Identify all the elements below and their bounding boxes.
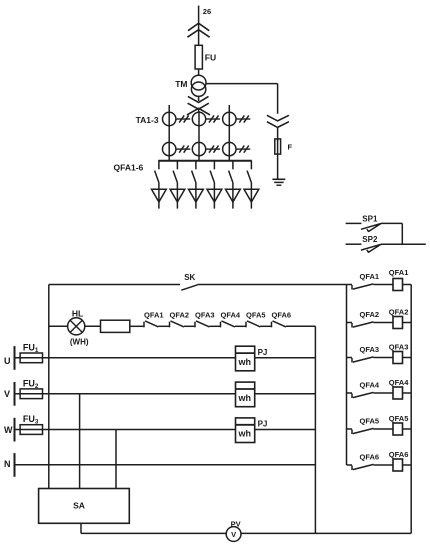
svg-text:QFA3: QFA3 bbox=[389, 343, 409, 352]
svg-text:QFA1: QFA1 bbox=[389, 268, 409, 277]
svg-text:FU2: FU2 bbox=[23, 378, 39, 390]
svg-text:N: N bbox=[4, 459, 11, 469]
svg-text:TA1-3: TA1-3 bbox=[136, 115, 159, 125]
svg-text:V: V bbox=[231, 530, 236, 539]
svg-text:wh: wh bbox=[238, 393, 252, 403]
svg-text:QFA4: QFA4 bbox=[360, 381, 380, 390]
svg-text:QFA4: QFA4 bbox=[221, 310, 241, 319]
svg-text:HL: HL bbox=[72, 309, 83, 319]
svg-text:SP1: SP1 bbox=[362, 214, 378, 223]
svg-text:QFA1: QFA1 bbox=[360, 272, 380, 281]
svg-text:FU1: FU1 bbox=[23, 343, 39, 355]
svg-text:QFA1: QFA1 bbox=[144, 310, 164, 319]
svg-text:QFA6: QFA6 bbox=[272, 310, 292, 319]
svg-text:PJ: PJ bbox=[258, 348, 268, 357]
svg-text:QFA3: QFA3 bbox=[195, 310, 215, 319]
svg-text:QFA5: QFA5 bbox=[360, 417, 380, 426]
svg-text:U: U bbox=[4, 356, 11, 366]
svg-text:QFA6: QFA6 bbox=[360, 453, 380, 462]
svg-text:wh: wh bbox=[238, 357, 252, 367]
svg-text:V: V bbox=[4, 389, 10, 399]
svg-text:TM: TM bbox=[175, 79, 187, 89]
svg-text:PV: PV bbox=[231, 520, 241, 529]
svg-text:W: W bbox=[4, 425, 13, 435]
svg-text:QFA3: QFA3 bbox=[360, 345, 380, 354]
svg-text:wh: wh bbox=[238, 429, 252, 439]
svg-text:QFA2: QFA2 bbox=[389, 308, 409, 317]
svg-text:QFA2: QFA2 bbox=[360, 310, 380, 319]
svg-text:QFA5: QFA5 bbox=[246, 310, 266, 319]
svg-text:(WH): (WH) bbox=[70, 338, 89, 347]
svg-text:SP2: SP2 bbox=[362, 235, 378, 244]
svg-text:26: 26 bbox=[203, 7, 211, 16]
svg-text:SK: SK bbox=[184, 273, 195, 282]
svg-text:FU3: FU3 bbox=[23, 414, 39, 426]
svg-text:FU: FU bbox=[205, 52, 216, 62]
svg-text:QFA6: QFA6 bbox=[389, 450, 409, 459]
svg-text:PJ: PJ bbox=[258, 420, 268, 429]
svg-text:QFA4: QFA4 bbox=[389, 378, 409, 387]
svg-text:QFA1-6: QFA1-6 bbox=[114, 163, 144, 173]
svg-text:QFA5: QFA5 bbox=[389, 414, 409, 423]
svg-text:F: F bbox=[288, 143, 293, 152]
svg-text:SA: SA bbox=[73, 501, 85, 511]
svg-text:QFA2: QFA2 bbox=[170, 310, 190, 319]
